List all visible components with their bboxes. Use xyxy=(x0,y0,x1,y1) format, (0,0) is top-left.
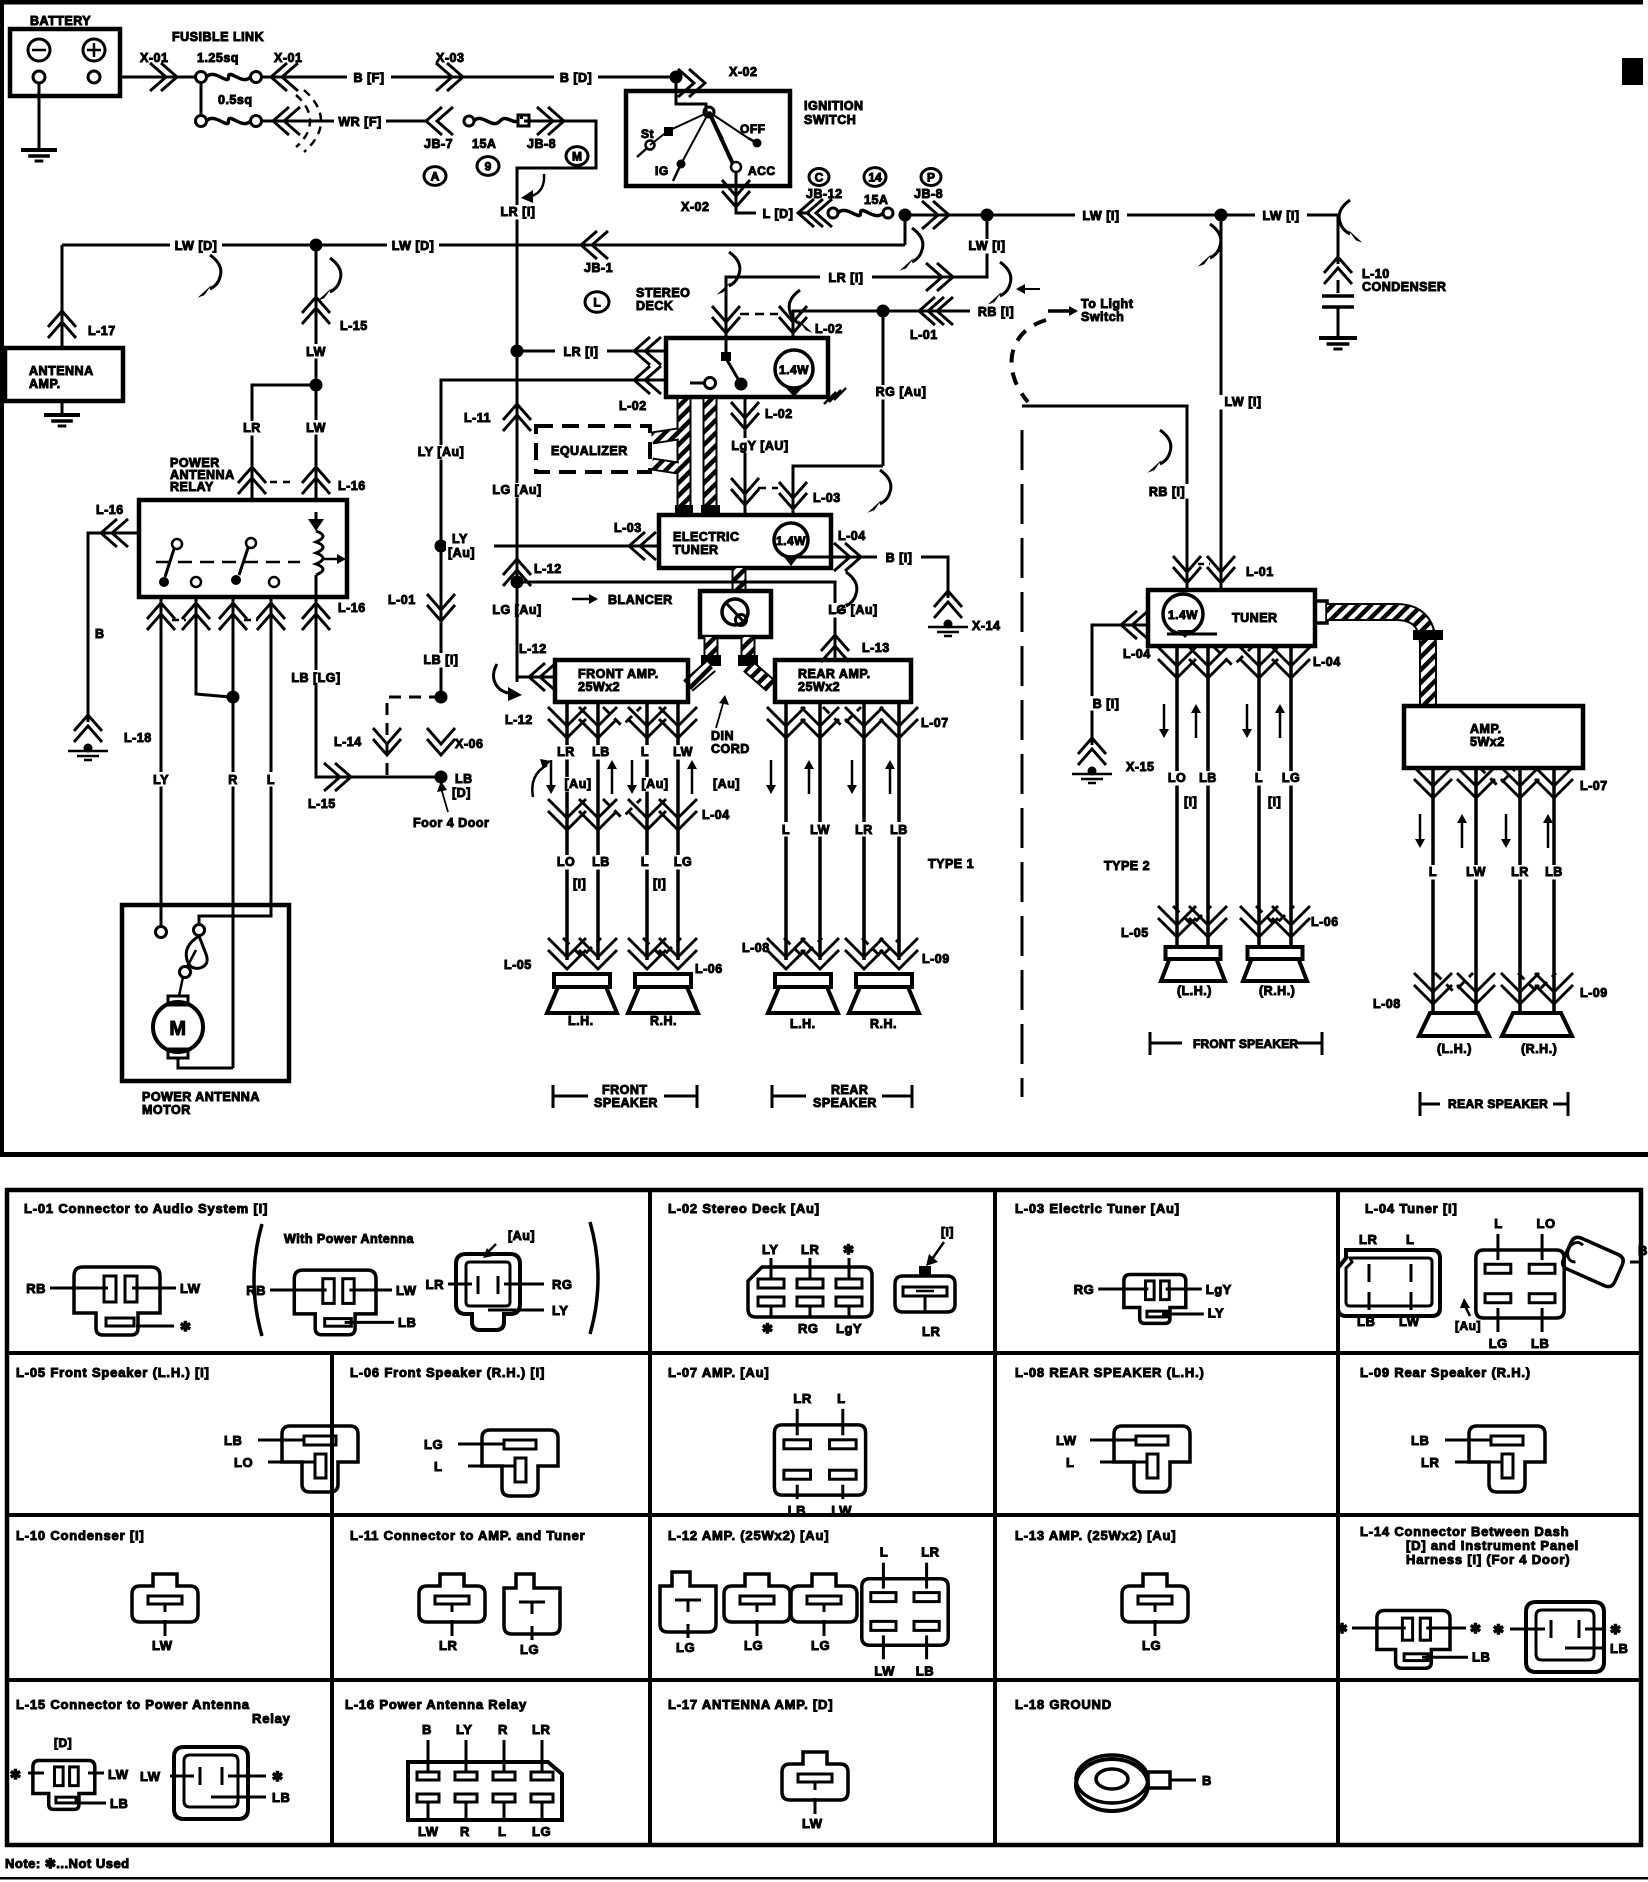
svg-text:M: M xyxy=(572,150,582,164)
svg-text:L-04: L-04 xyxy=(838,529,866,543)
svg-text:B: B xyxy=(1638,1243,1648,1258)
connector L-13 chevrons xyxy=(821,646,849,662)
svg-text:LB: LB xyxy=(592,745,610,759)
wire battery to fusible link xyxy=(120,76,196,79)
equalizer U3 xyxy=(536,426,650,472)
ground antenna amp xyxy=(61,401,64,415)
connector L-02 big xyxy=(748,1267,872,1317)
connector L-16 left chevrons xyxy=(112,519,128,547)
wire to condenser xyxy=(1337,215,1340,264)
svg-text:L-07: L-07 xyxy=(921,716,949,730)
svg-text:LY: LY xyxy=(1208,1306,1224,1321)
svg-text:LY: LY xyxy=(452,532,468,546)
connector L-07 xyxy=(774,1425,865,1495)
svg-text:LG: LG xyxy=(1282,771,1300,785)
front amp wires xyxy=(565,702,569,960)
connector L-07b chevrons xyxy=(1414,767,1452,786)
connector L-16 xyxy=(408,1762,562,1820)
diagram/table separator xyxy=(0,1152,1648,1157)
svg-text:LO: LO xyxy=(557,855,575,869)
ignition contact St xyxy=(646,141,655,150)
node RG xyxy=(877,305,890,318)
wire LY xyxy=(160,632,163,905)
with power antenna parens xyxy=(254,1224,262,1336)
connector L-09 xyxy=(1469,1426,1545,1492)
svg-text:L-07 AMP. [Au]: L-07 AMP. [Au] xyxy=(668,1365,769,1380)
front amplifier U6 xyxy=(555,660,688,702)
arrow down on ACC wire xyxy=(532,174,544,196)
svg-text:ANTENNA: ANTENNA xyxy=(29,364,94,378)
connector L-05 chevrons xyxy=(548,938,586,957)
svg-text:Relay: Relay xyxy=(252,1711,291,1726)
svg-text:L-03: L-03 xyxy=(614,521,642,535)
svg-text:R: R xyxy=(228,773,238,787)
svg-text:L-10 Condenser [I]: L-10 Condenser [I] xyxy=(16,1528,145,1543)
svg-text:LB: LB xyxy=(916,1663,934,1678)
svg-text:LW: LW xyxy=(1466,865,1486,879)
ignition contact ACC xyxy=(731,162,741,172)
svg-text:DECK: DECK xyxy=(636,299,673,313)
svg-text:L: L xyxy=(498,1824,506,1839)
svg-text:RB [I]: RB [I] xyxy=(978,305,1014,319)
svg-text:L-11: L-11 xyxy=(464,411,491,425)
svg-text:LW: LW xyxy=(673,745,693,759)
connector L-06 xyxy=(482,1430,558,1496)
svg-text:L: L xyxy=(782,823,790,837)
wire into ignition switch xyxy=(676,77,706,112)
svg-text:IGNITION: IGNITION xyxy=(804,99,864,113)
node LW-L15 branch xyxy=(310,239,323,252)
fusible link 0.5sq F2 xyxy=(196,116,207,127)
wire RG riser xyxy=(882,311,885,466)
motor wires in xyxy=(160,905,163,926)
wire to M corner xyxy=(517,121,596,351)
connector L-02 small xyxy=(895,1276,955,1312)
svg-text:L-15 Connector to Power Antenn: L-15 Connector to Power Antenna xyxy=(16,1697,250,1712)
wire B[I] xyxy=(791,557,948,598)
power antenna motor M1 xyxy=(122,905,289,1081)
connector L-08 xyxy=(1114,1426,1190,1492)
fusible link 1.25sq F1 xyxy=(196,72,207,83)
svg-text:L: L xyxy=(641,745,649,759)
svg-text:LG: LG xyxy=(676,1640,695,1655)
rear amp wires xyxy=(784,702,788,960)
svg-text:LY: LY xyxy=(552,1303,568,1318)
tuner arrows xyxy=(1163,704,1166,730)
svg-text:L [D]: L [D] xyxy=(763,207,794,221)
svg-text:LW: LW xyxy=(1399,1314,1420,1329)
svg-text:1.25sq: 1.25sq xyxy=(197,51,239,65)
svg-text:LG: LG xyxy=(744,1638,763,1653)
connector L-04d chevrons xyxy=(1158,647,1196,666)
tuner U8 xyxy=(1148,590,1315,646)
svg-text:[I]: [I] xyxy=(573,877,586,891)
curved arrow RB xyxy=(1160,430,1171,464)
ignition rotor pivot xyxy=(704,107,714,117)
svg-text:X-15: X-15 xyxy=(1126,760,1154,774)
svg-text:B [I]: B [I] xyxy=(886,551,913,565)
page top bar xyxy=(0,0,1643,5)
node fuse4 out xyxy=(899,209,912,222)
svg-text:LY: LY xyxy=(456,1722,472,1737)
wire LG to rear amp xyxy=(517,582,835,660)
curved arrow at condenser xyxy=(1339,200,1350,234)
connector L-06b chevrons xyxy=(1240,906,1278,925)
svg-text:L-02: L-02 xyxy=(765,407,793,421)
connector L-14 chevrons xyxy=(373,728,401,744)
connector L-16 top chevrons xyxy=(238,478,266,494)
svg-text:L-08: L-08 xyxy=(1373,997,1401,1011)
connector X-02 top chevrons xyxy=(678,69,694,97)
rear speaker bracket 2 xyxy=(1420,1103,1440,1106)
wire RB[I] xyxy=(883,310,1022,313)
connector L-12a xyxy=(660,1572,716,1632)
front speaker RH SP2 xyxy=(635,974,691,987)
wire LW[D] rail xyxy=(62,244,905,247)
svg-text:AMP.: AMP. xyxy=(1470,722,1502,736)
table outer border xyxy=(7,1190,1641,1845)
svg-text:L: L xyxy=(1494,1216,1502,1231)
svg-text:LR: LR xyxy=(855,823,873,837)
curved arrow L-02 xyxy=(789,290,800,324)
svg-text:LG: LG xyxy=(1489,1336,1508,1351)
connector L-18 xyxy=(1076,1759,1148,1811)
svg-text:L-01: L-01 xyxy=(910,328,938,342)
svg-text:LW: LW xyxy=(306,345,326,359)
svg-text:L-18 GROUND: L-18 GROUND xyxy=(1015,1697,1112,1712)
connector JB-8 chevrons xyxy=(537,107,553,135)
svg-text:LB [LG]: LB [LG] xyxy=(291,671,340,685)
connector L-03b chevrons xyxy=(640,532,656,560)
svg-text:LR: LR xyxy=(243,421,261,435)
din cord right xyxy=(741,637,756,655)
svg-text:LB: LB xyxy=(1411,1433,1429,1448)
svg-text:(R.H.): (R.H.) xyxy=(1259,984,1295,998)
svg-text:L-09: L-09 xyxy=(922,952,950,966)
svg-text:RELAY: RELAY xyxy=(170,480,214,494)
svg-text:LW [I]: LW [I] xyxy=(1224,395,1261,409)
svg-text:L-09 Rear Speaker (R.H.): L-09 Rear Speaker (R.H.) xyxy=(1360,1365,1531,1380)
curved arrow rear amp xyxy=(846,572,857,606)
connector X-02 bottom chevrons xyxy=(722,180,750,196)
svg-text:[I]: [I] xyxy=(1268,795,1281,809)
wire deck LR input xyxy=(517,350,666,353)
svg-text:15A: 15A xyxy=(472,137,496,151)
connector L-02 top chevrons xyxy=(712,306,740,322)
arrow down deck xyxy=(729,252,740,286)
stereo deck U2 xyxy=(666,338,828,397)
electric tuner U4 xyxy=(659,515,831,568)
svg-text:LB: LB xyxy=(1610,1641,1628,1656)
wire deck RG top xyxy=(793,311,883,338)
connector L-15b chevrons xyxy=(324,763,340,791)
svg-text:SPEAKER: SPEAKER xyxy=(594,1096,658,1110)
svg-text:Note: ✱...Not Used: Note: ✱...Not Used xyxy=(5,1856,130,1871)
svg-text:R: R xyxy=(460,1824,470,1839)
svg-text:(R.H.): (R.H.) xyxy=(1521,1042,1557,1056)
svg-text:L-05 Front Speaker (L.H.) [I]: L-05 Front Speaker (L.H.) [I] xyxy=(16,1365,210,1380)
svg-text:1.4W: 1.4W xyxy=(779,363,809,377)
svg-text:EQUALIZER: EQUALIZER xyxy=(551,444,628,458)
svg-text:LB [I]: LB [I] xyxy=(424,653,459,667)
svg-text:RG: RG xyxy=(798,1321,819,1336)
svg-text:L-13: L-13 xyxy=(862,641,890,655)
svg-text:B [D]: B [D] xyxy=(560,71,592,85)
svg-text:LW: LW xyxy=(108,1767,129,1782)
svg-text:LG [Au]: LG [Au] xyxy=(492,483,541,497)
din cord left xyxy=(704,637,719,655)
connector L-15 chevrons xyxy=(302,308,330,324)
node L14 top xyxy=(435,691,448,704)
svg-text:L-11 Connector to AMP. and Tun: L-11 Connector to AMP. and Tuner xyxy=(350,1528,586,1543)
ground L-18 xyxy=(74,726,102,742)
svg-text:L-05: L-05 xyxy=(504,958,532,972)
svg-text:FRONT SPEAKER: FRONT SPEAKER xyxy=(1193,1037,1298,1051)
svg-text:To Light: To Light xyxy=(1081,297,1134,311)
connector L-04 antenna plug xyxy=(1560,1235,1625,1289)
svg-text:L-12: L-12 xyxy=(534,562,562,576)
svg-text:B: B xyxy=(422,1722,432,1737)
antenna amplifier U1 xyxy=(5,348,123,401)
svg-text:[D]: [D] xyxy=(54,1736,72,1750)
node LG junction xyxy=(511,576,524,589)
wire B[F] rail xyxy=(262,76,676,79)
svg-text:RB [I]: RB [I] xyxy=(1149,485,1185,499)
svg-text:POWER ANTENNA: POWER ANTENNA xyxy=(142,1090,260,1104)
dashed RB loop xyxy=(1012,320,1046,402)
svg-text:RB: RB xyxy=(26,1281,46,1296)
connector L-14a xyxy=(1377,1610,1450,1668)
svg-text:X-02: X-02 xyxy=(729,65,757,79)
connector L-01b chevrons xyxy=(427,594,455,610)
tuner wires xyxy=(1175,644,1179,947)
svg-text:Switch: Switch xyxy=(1081,310,1124,324)
svg-text:L-02 Stereo Deck [Au]: L-02 Stereo Deck [Au] xyxy=(668,1201,820,1216)
front amp arrows xyxy=(550,760,553,786)
connector L-10 chevrons xyxy=(1324,268,1352,284)
amp arrows xyxy=(1419,814,1422,840)
svg-text:LY [Au]: LY [Au] xyxy=(418,445,465,459)
svg-text:L: L xyxy=(1429,865,1437,879)
deck switch xyxy=(690,382,704,385)
front speaker LH SP1 xyxy=(554,974,610,987)
svg-text:[Au]: [Au] xyxy=(642,777,669,791)
wire fuse-out to JB-1 rail xyxy=(904,215,907,245)
svg-text:BATTERY: BATTERY xyxy=(30,14,91,28)
svg-text:FRONT AMP.: FRONT AMP. xyxy=(578,667,659,681)
svg-text:JB-8: JB-8 xyxy=(527,137,556,151)
motor contact a xyxy=(156,927,167,938)
svg-text:LW: LW xyxy=(418,1824,439,1839)
svg-text:(L.H.): (L.H.) xyxy=(1177,984,1212,998)
svg-text:LB: LB xyxy=(890,823,908,837)
connector L-12a chevrons xyxy=(503,570,531,586)
svg-text:L-05: L-05 xyxy=(1121,926,1149,940)
connector L-01 [Au] xyxy=(456,1254,520,1330)
thermal switch xyxy=(186,936,207,968)
circled L xyxy=(585,292,609,312)
curved arrow RG xyxy=(880,470,891,504)
svg-text:LG [Au]: LG [Au] xyxy=(828,603,877,617)
node LR branch xyxy=(310,379,323,392)
svg-text:LR: LR xyxy=(922,1324,940,1339)
wire LW[I] rail xyxy=(905,214,1338,217)
rear speaker LH SP3 xyxy=(775,974,831,987)
wire R join xyxy=(196,632,230,697)
svg-text:L-02: L-02 xyxy=(619,399,647,413)
svg-text:✱: ✱ xyxy=(1337,1621,1348,1636)
coax collar xyxy=(1413,630,1443,640)
svg-text:L: L xyxy=(880,1545,888,1560)
svg-text:L-14: L-14 xyxy=(334,735,362,749)
connector L-12d xyxy=(862,1579,948,1646)
curved arrow L-15 drop xyxy=(330,258,341,292)
svg-text:L-08: L-08 xyxy=(742,941,770,955)
svg-text:Foor 4 Door: Foor 4 Door xyxy=(413,816,489,830)
connector JB-8b chevrons xyxy=(922,201,938,229)
wire LgY xyxy=(744,397,747,515)
wire tuner B[I] xyxy=(1092,625,1148,745)
svg-text:✱: ✱ xyxy=(10,1767,21,1782)
rear speaker RH SP4 xyxy=(856,974,912,987)
svg-text:TUNER: TUNER xyxy=(1232,611,1278,625)
connector X-01 right chevrons xyxy=(282,63,298,91)
svg-text:LB: LB xyxy=(455,772,473,786)
svg-text:TUNER: TUNER xyxy=(673,543,719,557)
connector L-16 bottom chevrons xyxy=(147,614,175,630)
svg-text:L-12: L-12 xyxy=(519,642,547,656)
to light switch arrow xyxy=(1048,309,1070,313)
svg-text:L-04: L-04 xyxy=(702,808,730,822)
front speaker bracket 2 xyxy=(1150,1042,1182,1045)
svg-text:L-16: L-16 xyxy=(338,479,366,493)
svg-text:5Wx2: 5Wx2 xyxy=(1470,735,1505,749)
connector L-14b xyxy=(1526,1602,1604,1672)
tuner coax stub xyxy=(1315,601,1327,623)
svg-text:LY: LY xyxy=(153,773,169,787)
svg-text:[D] and Instrument Panel: [D] and Instrument Panel xyxy=(1406,1538,1579,1553)
svg-text:[I]: [I] xyxy=(1184,795,1197,809)
svg-text:LB: LB xyxy=(1199,771,1217,785)
svg-text:L-03: L-03 xyxy=(813,491,841,505)
svg-text:L-12 AMP. (25Wx2) [Au]: L-12 AMP. (25Wx2) [Au] xyxy=(668,1528,829,1543)
svg-text:LgY: LgY xyxy=(836,1321,862,1336)
connector X-03 chevrons xyxy=(436,63,452,91)
svg-text:L: L xyxy=(267,773,275,787)
svg-text:L-02: L-02 xyxy=(815,322,843,336)
svg-text:L: L xyxy=(641,855,649,869)
svg-text:LB: LB xyxy=(224,1433,242,1448)
svg-text:LgY [AU]: LgY [AU] xyxy=(731,439,788,453)
svg-text:ACC: ACC xyxy=(748,164,776,178)
fuse 15A F3 xyxy=(464,116,474,126)
svg-text:LG: LG xyxy=(674,855,692,869)
svg-text:CORD: CORD xyxy=(711,742,750,756)
svg-text:LW: LW xyxy=(306,421,326,435)
curved arrow LW[I] xyxy=(1000,262,1011,296)
power antenna relay K1 xyxy=(139,500,347,597)
rear amp arrows xyxy=(770,760,773,786)
svg-text:JB-7: JB-7 xyxy=(424,137,453,151)
rear speaker RH type2 SP8 xyxy=(1502,1013,1572,1036)
svg-text:LW [I]: LW [I] xyxy=(1082,209,1119,223)
svg-text:REAR SPEAKER: REAR SPEAKER xyxy=(1448,1097,1548,1111)
node LY junction xyxy=(435,540,448,553)
svg-text:LG: LG xyxy=(1142,1638,1161,1653)
circled M xyxy=(566,147,588,166)
svg-text:LR: LR xyxy=(801,1242,819,1257)
equalizer stubs xyxy=(652,434,678,438)
curved arrow at LW drop xyxy=(1210,224,1221,258)
svg-text:LB: LB xyxy=(398,1315,416,1330)
svg-text:1.4W: 1.4W xyxy=(776,534,806,548)
small left arrow xyxy=(1024,288,1040,290)
svg-text:L-06: L-06 xyxy=(695,962,723,976)
svg-text:L-16: L-16 xyxy=(96,503,124,517)
svg-text:L.H.: L.H. xyxy=(568,1014,594,1028)
svg-text:LR: LR xyxy=(532,1722,550,1737)
motor contact b xyxy=(194,925,205,936)
svg-text:R.H.: R.H. xyxy=(650,1014,677,1028)
svg-text:LR [I]: LR [I] xyxy=(564,345,599,359)
svg-text:STEREO: STEREO xyxy=(636,286,690,300)
svg-text:LW [I]: LW [I] xyxy=(1262,209,1299,223)
relay contact 4 xyxy=(269,577,279,587)
svg-text:LW: LW xyxy=(874,1663,895,1678)
svg-text:LB: LB xyxy=(788,1503,806,1518)
svg-text:L-08 REAR SPEAKER (L.H.): L-08 REAR SPEAKER (L.H.) xyxy=(1015,1365,1205,1380)
label LG [Au] b xyxy=(487,602,546,617)
ground condenser xyxy=(1319,336,1357,340)
relay left wire xyxy=(88,533,139,722)
wire L[D] xyxy=(736,196,810,213)
connector L-17 xyxy=(782,1752,848,1800)
svg-text:JB-1: JB-1 xyxy=(584,261,613,275)
node deck LR xyxy=(511,345,524,358)
svg-text:ELECTRIC: ELECTRIC xyxy=(673,530,740,544)
svg-text:✱: ✱ xyxy=(1470,1621,1481,1636)
connector L-04b chevrons xyxy=(548,799,586,818)
curved arrow antenna drop xyxy=(210,255,221,289)
svg-text:X-02: X-02 xyxy=(681,200,709,214)
wire to 0.5sq fuse xyxy=(200,82,203,116)
table column lines rows2-4 xyxy=(330,1353,334,1845)
connector L-02 lower-left chevrons xyxy=(645,366,661,394)
svg-text:L-17 ANTENNA AMP. [D]: L-17 ANTENNA AMP. [D] xyxy=(668,1697,833,1712)
connector X-06 chevrons xyxy=(427,728,455,744)
svg-text:L-04: L-04 xyxy=(1313,655,1341,669)
connector L-09b chevrons xyxy=(1501,973,1539,992)
curved arrow four door xyxy=(532,765,547,797)
svg-text:TYPE 1: TYPE 1 xyxy=(928,857,974,871)
svg-text:CONDENSER: CONDENSER xyxy=(1362,280,1446,294)
wire LB[I] riser xyxy=(440,546,443,697)
svg-text:L-01: L-01 xyxy=(1246,565,1274,579)
wire WR[F] xyxy=(262,120,428,123)
svg-text:TYPE 2: TYPE 2 xyxy=(1104,859,1150,873)
circled P xyxy=(921,169,941,186)
svg-text:14: 14 xyxy=(868,171,882,185)
svg-text:✱: ✱ xyxy=(1610,1622,1621,1637)
connector L-08b chevrons xyxy=(1414,973,1452,992)
connector JB-1 chevrons xyxy=(592,231,608,259)
svg-text:LB: LB xyxy=(592,855,610,869)
connector L-11 chevrons xyxy=(503,415,531,431)
svg-text:C: C xyxy=(815,171,824,185)
svg-text:L-06: L-06 xyxy=(1311,915,1339,929)
connector L-03 chevrons xyxy=(779,482,807,498)
svg-text:LR [I]: LR [I] xyxy=(829,271,864,285)
